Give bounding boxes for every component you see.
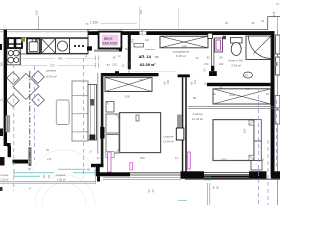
svg-text:215: 215 <box>272 11 276 16</box>
kitchen counter outline <box>7 38 88 54</box>
bathroom door jamb block <box>208 33 213 38</box>
entry door opening <box>140 31 147 35</box>
bed 1 <box>120 113 161 153</box>
corridor left wall <box>128 35 131 69</box>
magenta riser box <box>99 32 122 49</box>
wall gray box <box>177 115 182 129</box>
bathroom door leaf <box>209 71 217 76</box>
wall notch <box>115 71 119 73</box>
bathroom niche square <box>223 36 227 39</box>
teal dimension lines <box>14 169 211 200</box>
svg-text:62.29 м²: 62.29 м² <box>140 62 156 67</box>
sofa <box>72 81 88 141</box>
loggia outer edge <box>0 180 96 182</box>
svg-text:400: 400 <box>58 57 63 61</box>
dots cell <box>70 39 89 54</box>
svg-text:212: 212 <box>230 93 235 97</box>
dishwasher X box <box>42 39 56 54</box>
left edge neighbour bits <box>0 44 2 50</box>
svg-text:5.40 м²: 5.40 м² <box>176 54 186 58</box>
bedroom2 bottom wall right pier <box>249 171 267 179</box>
window sills bedroom2 <box>204 177 249 179</box>
svg-text:130: 130 <box>35 10 39 15</box>
svg-text:57: 57 <box>107 63 111 67</box>
magenta tick window start <box>130 163 133 170</box>
dash-dot axis line <box>29 71 31 166</box>
svg-text:85: 85 <box>193 96 197 100</box>
svg-text:210: 210 <box>112 63 117 67</box>
svg-text:210: 210 <box>219 62 224 66</box>
top dim line <box>38 16 40 30</box>
balcony threshold box <box>106 152 114 158</box>
wall pier block <box>100 127 104 139</box>
svg-text:баня и WC: баня и WC <box>229 59 245 63</box>
stove <box>7 49 20 66</box>
olive square <box>21 38 25 42</box>
svg-text:11.42 м²: 11.42 м² <box>192 117 203 121</box>
bedroom1 side box top <box>106 114 119 133</box>
bed2 headboard top <box>254 120 261 141</box>
svg-text:302: 302 <box>222 158 227 162</box>
loggia wall piece <box>13 160 29 164</box>
kitchen cabinet 2 <box>15 38 22 48</box>
svg-text:дневна: дневна <box>46 69 56 73</box>
niche corner pier <box>87 46 92 50</box>
svg-text:спалня: спалня <box>193 112 203 116</box>
right neighbour edge line <box>277 30 279 205</box>
bedroom1 top wall <box>101 73 159 76</box>
svg-text:1.26 м²: 1.26 м² <box>0 179 8 182</box>
gray bar <box>94 50 119 52</box>
toilet <box>231 38 243 44</box>
svg-text:КАМ.КОМ: КАМ.КОМ <box>102 42 117 46</box>
magenta door leaf bedroom2 <box>187 152 190 169</box>
bedroom1 side box bottom <box>106 135 119 154</box>
svg-text:210: 210 <box>204 62 209 66</box>
riser step wall <box>117 48 123 51</box>
svg-text:1 326: 1 326 <box>90 20 98 24</box>
svg-text:360: 360 <box>1 61 4 66</box>
bedroom1 nightstand top <box>106 102 114 113</box>
faint floor arcs bottom-left <box>30 150 98 205</box>
bedroom2 wardrobe <box>213 89 271 104</box>
svg-text:3.39 м²: 3.39 м² <box>231 64 241 68</box>
svg-text:20: 20 <box>225 21 229 25</box>
living/bedroom1 wall <box>97 73 99 154</box>
svg-text:ВЕНТ.: ВЕНТ. <box>104 37 113 41</box>
dining table <box>7 71 44 107</box>
armchair <box>56 100 69 125</box>
svg-text:24: 24 <box>261 19 265 23</box>
bathroom bottom wall <box>207 83 271 86</box>
bed 2 <box>213 120 254 161</box>
kitchen right wall line <box>87 30 89 54</box>
kitchen cabinet 1 <box>8 38 15 48</box>
svg-text:105: 105 <box>131 38 135 43</box>
bottom wall corner pier <box>271 171 280 179</box>
svg-text:100: 100 <box>145 38 150 42</box>
bathroom left wall <box>211 39 213 67</box>
loggia gray pier <box>28 147 31 166</box>
bed2 corner mark top <box>249 120 254 125</box>
svg-text:90: 90 <box>113 56 117 60</box>
svg-text:19.16 м²: 19.16 м² <box>45 75 56 79</box>
oven circle box <box>56 39 70 54</box>
neighbour fixtures right <box>276 35 280 54</box>
svg-text:50: 50 <box>125 47 129 51</box>
svg-text:373: 373 <box>47 157 52 161</box>
window sills bedroom1 <box>103 176 181 178</box>
svg-text:300: 300 <box>140 156 145 160</box>
left wall <box>4 30 7 146</box>
window bedroom1 <box>130 172 181 174</box>
inter-bedroom door stub <box>178 74 190 77</box>
entry wardrobe <box>160 36 208 48</box>
bottom thin line right <box>185 178 280 180</box>
bedroom1 wardrobe <box>105 77 152 91</box>
svg-text:380: 380 <box>155 55 160 59</box>
svg-text:спалня: спалня <box>164 135 174 139</box>
svg-text:тераса: тераса <box>0 174 9 177</box>
dim ticks <box>95 56 97 61</box>
top thick wall <box>88 31 274 35</box>
svg-text:АР: АР <box>245 73 249 77</box>
radiator living <box>6 116 10 133</box>
bedroom1 bottom walls <box>91 164 104 167</box>
balcony door magenta leaf bedroom1 <box>108 152 111 172</box>
inter-bedroom wall <box>182 77 184 175</box>
entry door threshold <box>134 44 144 48</box>
svg-text:преддверие: преддверие <box>173 50 190 54</box>
blue dashed lines <box>14 58 277 205</box>
shower <box>246 36 271 60</box>
bathroom magenta appliance <box>216 40 221 50</box>
bed2 headboard bottom <box>254 141 261 161</box>
sink unit <box>27 38 40 53</box>
svg-text:210: 210 <box>166 79 170 84</box>
top outer thin line <box>0 29 268 31</box>
svg-text:11.64 м²: 11.64 м² <box>163 140 174 144</box>
svg-text:210: 210 <box>182 44 187 48</box>
bathroom cabinet <box>215 38 223 52</box>
wardrobe rail lines <box>188 106 276 108</box>
svg-text:130: 130 <box>140 29 144 34</box>
left wall jog <box>7 143 11 147</box>
wall white box <box>176 128 184 140</box>
bedroom2 bottom wall left pier <box>181 171 205 179</box>
svg-text:1.26 м²: 1.26 м² <box>57 178 66 182</box>
corridor floor line <box>131 70 177 72</box>
bed2 corner mark bottom <box>249 155 254 160</box>
svg-text:70: 70 <box>85 22 89 26</box>
floor drain <box>244 72 253 78</box>
svg-text:лоджия: лоджия <box>56 173 66 177</box>
svg-text:350: 350 <box>243 128 247 133</box>
svg-text:25: 25 <box>252 21 256 25</box>
bed2 nightstand <box>251 161 262 171</box>
parapet below window2 <box>204 175 249 178</box>
kitchen dim lines <box>20 57 55 59</box>
svg-text:210: 210 <box>193 79 197 84</box>
svg-text:АП. 14: АП. 14 <box>139 54 152 59</box>
svg-text:375: 375 <box>50 63 55 67</box>
svg-text:208: 208 <box>125 94 130 98</box>
top-right notch <box>267 17 269 30</box>
window bedroom2 <box>204 172 249 174</box>
kitchen top wall inner line <box>0 31 88 33</box>
balcony lines below <box>207 183 209 205</box>
right wall <box>271 31 275 177</box>
sofa back unit <box>88 85 97 141</box>
